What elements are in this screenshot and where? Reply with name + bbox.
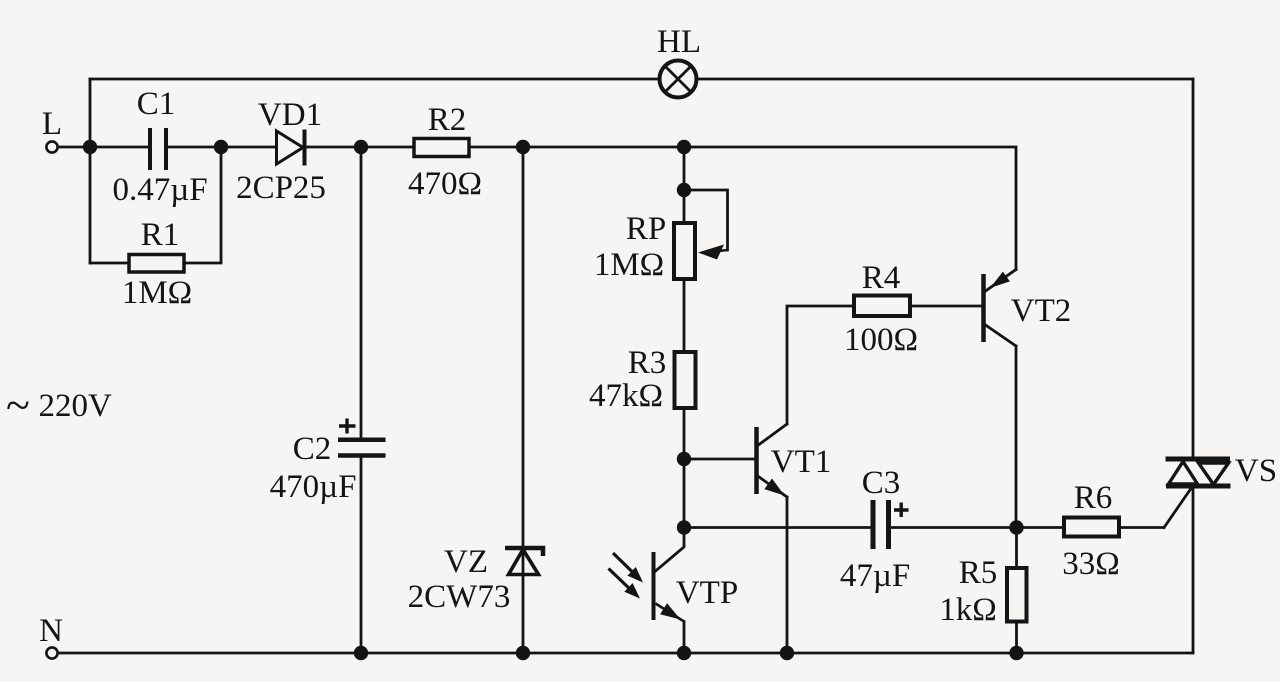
- svg-text:470Ω: 470Ω: [408, 166, 482, 202]
- wire VT1 collector to R4: [757, 306, 854, 446]
- svg-text:2CP25: 2CP25: [236, 170, 326, 206]
- svg-text:100Ω: 100Ω: [844, 322, 918, 358]
- svg-text:HL: HL: [657, 24, 701, 60]
- svg-text:47kΩ: 47kΩ: [589, 378, 663, 414]
- svg-text:1kΩ: 1kΩ: [939, 592, 997, 628]
- resistor R2: [414, 139, 469, 157]
- wire R6 to triac gate: [1119, 487, 1192, 528]
- wire right vertical upper: [1192, 79, 1195, 457]
- wire right vertical lower: [1192, 489, 1195, 654]
- transistor VT1: [754, 427, 759, 494]
- wire VTP collector: [656, 528, 685, 572]
- svg-text:R5: R5: [959, 555, 998, 591]
- resistor R4: [854, 296, 910, 317]
- svg-text:47µF: 47µF: [840, 558, 910, 594]
- svg-text:1MΩ: 1MΩ: [594, 247, 664, 283]
- wire L lead: [58, 146, 90, 149]
- svg-text:~: ~: [6, 381, 30, 430]
- terminal N: [46, 647, 57, 658]
- wire R5 leads: [1015, 528, 1018, 654]
- wire left vertical: [89, 79, 92, 263]
- junction C2 bottom rail: [354, 646, 368, 660]
- zener VZ: [505, 548, 543, 575]
- wire signal line: [684, 526, 1064, 529]
- wire VT2 collector down: [986, 325, 1017, 528]
- junction VT1 base node: [677, 452, 691, 466]
- capacitor C2: [338, 419, 386, 456]
- svg-text:C1: C1: [137, 86, 176, 122]
- svg-text:1MΩ: 1MΩ: [122, 275, 192, 311]
- svg-text:R1: R1: [141, 217, 180, 253]
- svg-text:R6: R6: [1074, 480, 1113, 516]
- wire bottom rail: [58, 652, 1193, 655]
- capacitor C1: [150, 128, 166, 170]
- svg-text:C2: C2: [293, 431, 332, 467]
- svg-text:0.47µF: 0.47µF: [112, 172, 207, 208]
- resistor R3: [675, 352, 696, 408]
- junction C1/R1 right: [214, 140, 228, 154]
- svg-text:VT2: VT2: [1011, 293, 1072, 329]
- junction VT1 emitter rail: [780, 646, 794, 660]
- junction VZ bottom rail: [516, 646, 530, 660]
- transistor VT2: [981, 274, 986, 342]
- junction C3/R5/R6 node: [1009, 520, 1023, 534]
- resistor R6: [1064, 518, 1119, 537]
- junction VZ top node: [516, 140, 530, 154]
- junction R5 bottom rail: [1009, 646, 1023, 660]
- lamp HL: [660, 61, 697, 98]
- triac VS: [1166, 459, 1231, 486]
- svg-text:RP: RP: [626, 211, 666, 247]
- svg-text:N: N: [39, 613, 63, 649]
- svg-text:470µF: 470µF: [270, 469, 357, 505]
- svg-text:R4: R4: [862, 260, 901, 296]
- wire R1 loop: [90, 147, 221, 263]
- svg-text:VD1: VD1: [258, 97, 322, 133]
- svg-text:33Ω: 33Ω: [1062, 546, 1120, 582]
- svg-text:2CW73: 2CW73: [408, 579, 511, 615]
- svg-text:220V: 220V: [39, 388, 113, 424]
- potentiometer RP: [674, 223, 695, 279]
- wire VT1 emitter down: [757, 476, 787, 654]
- svg-text:R3: R3: [628, 345, 667, 381]
- svg-text:R2: R2: [428, 102, 467, 138]
- svg-text:VTP: VTP: [676, 575, 738, 611]
- wire VZ branch: [522, 147, 525, 653]
- junction RP wiper node: [677, 183, 691, 197]
- wire R4 to VT2 base: [910, 305, 981, 308]
- wire RP wiper: [684, 190, 728, 250]
- wire C2 branch: [360, 147, 363, 653]
- wire VT2 emitter: [986, 270, 1017, 292]
- wire RP column: [683, 147, 686, 528]
- wire top rail: [90, 78, 1193, 81]
- junction VTP emitter rail: [677, 646, 691, 660]
- svg-text:VS: VS: [1235, 453, 1277, 489]
- svg-text:C3: C3: [862, 465, 901, 501]
- resistor R5: [1007, 568, 1027, 622]
- junction RP top node: [677, 140, 691, 154]
- phototransistor VTP: [609, 552, 685, 622]
- terminal L: [46, 141, 57, 152]
- svg-text:VT1: VT1: [771, 444, 832, 480]
- resistor R1: [129, 255, 184, 273]
- junction VTP collector node: [677, 520, 691, 534]
- junction C2 top node: [354, 140, 368, 154]
- wire VTP emitter down: [683, 622, 686, 654]
- wire VT1 base: [684, 458, 754, 461]
- diode VD1: [277, 130, 305, 166]
- capacitor C3: [873, 500, 909, 549]
- junction L node: [83, 140, 97, 154]
- svg-text:L: L: [42, 106, 62, 142]
- svg-text:VZ: VZ: [444, 544, 488, 580]
- wire main line: [90, 147, 1016, 270]
